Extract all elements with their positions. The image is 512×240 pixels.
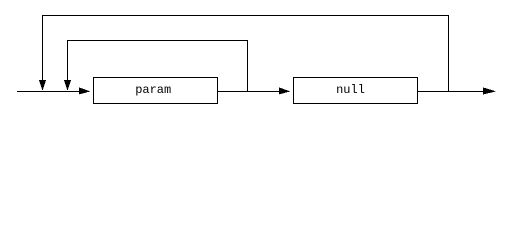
box: param [94,78,218,104]
svg-text:null: null [336,83,365,97]
wire: between param and null [218,91,281,93]
wire: outer loop (top) [43,16,449,92]
arrowhead right into null box [279,87,290,94]
wire: entry line left [17,91,80,93]
svg-text:param: param [135,83,171,97]
wire: inner loop [68,41,248,92]
arrowhead right into param box [79,87,90,94]
arrowhead down into main line (outer loop) [39,80,46,91]
box: null [294,78,418,104]
arrowhead right at exit [483,87,496,94]
wire: after null to exit [418,91,484,93]
arrowhead down into main line (inner loop) [64,80,71,91]
